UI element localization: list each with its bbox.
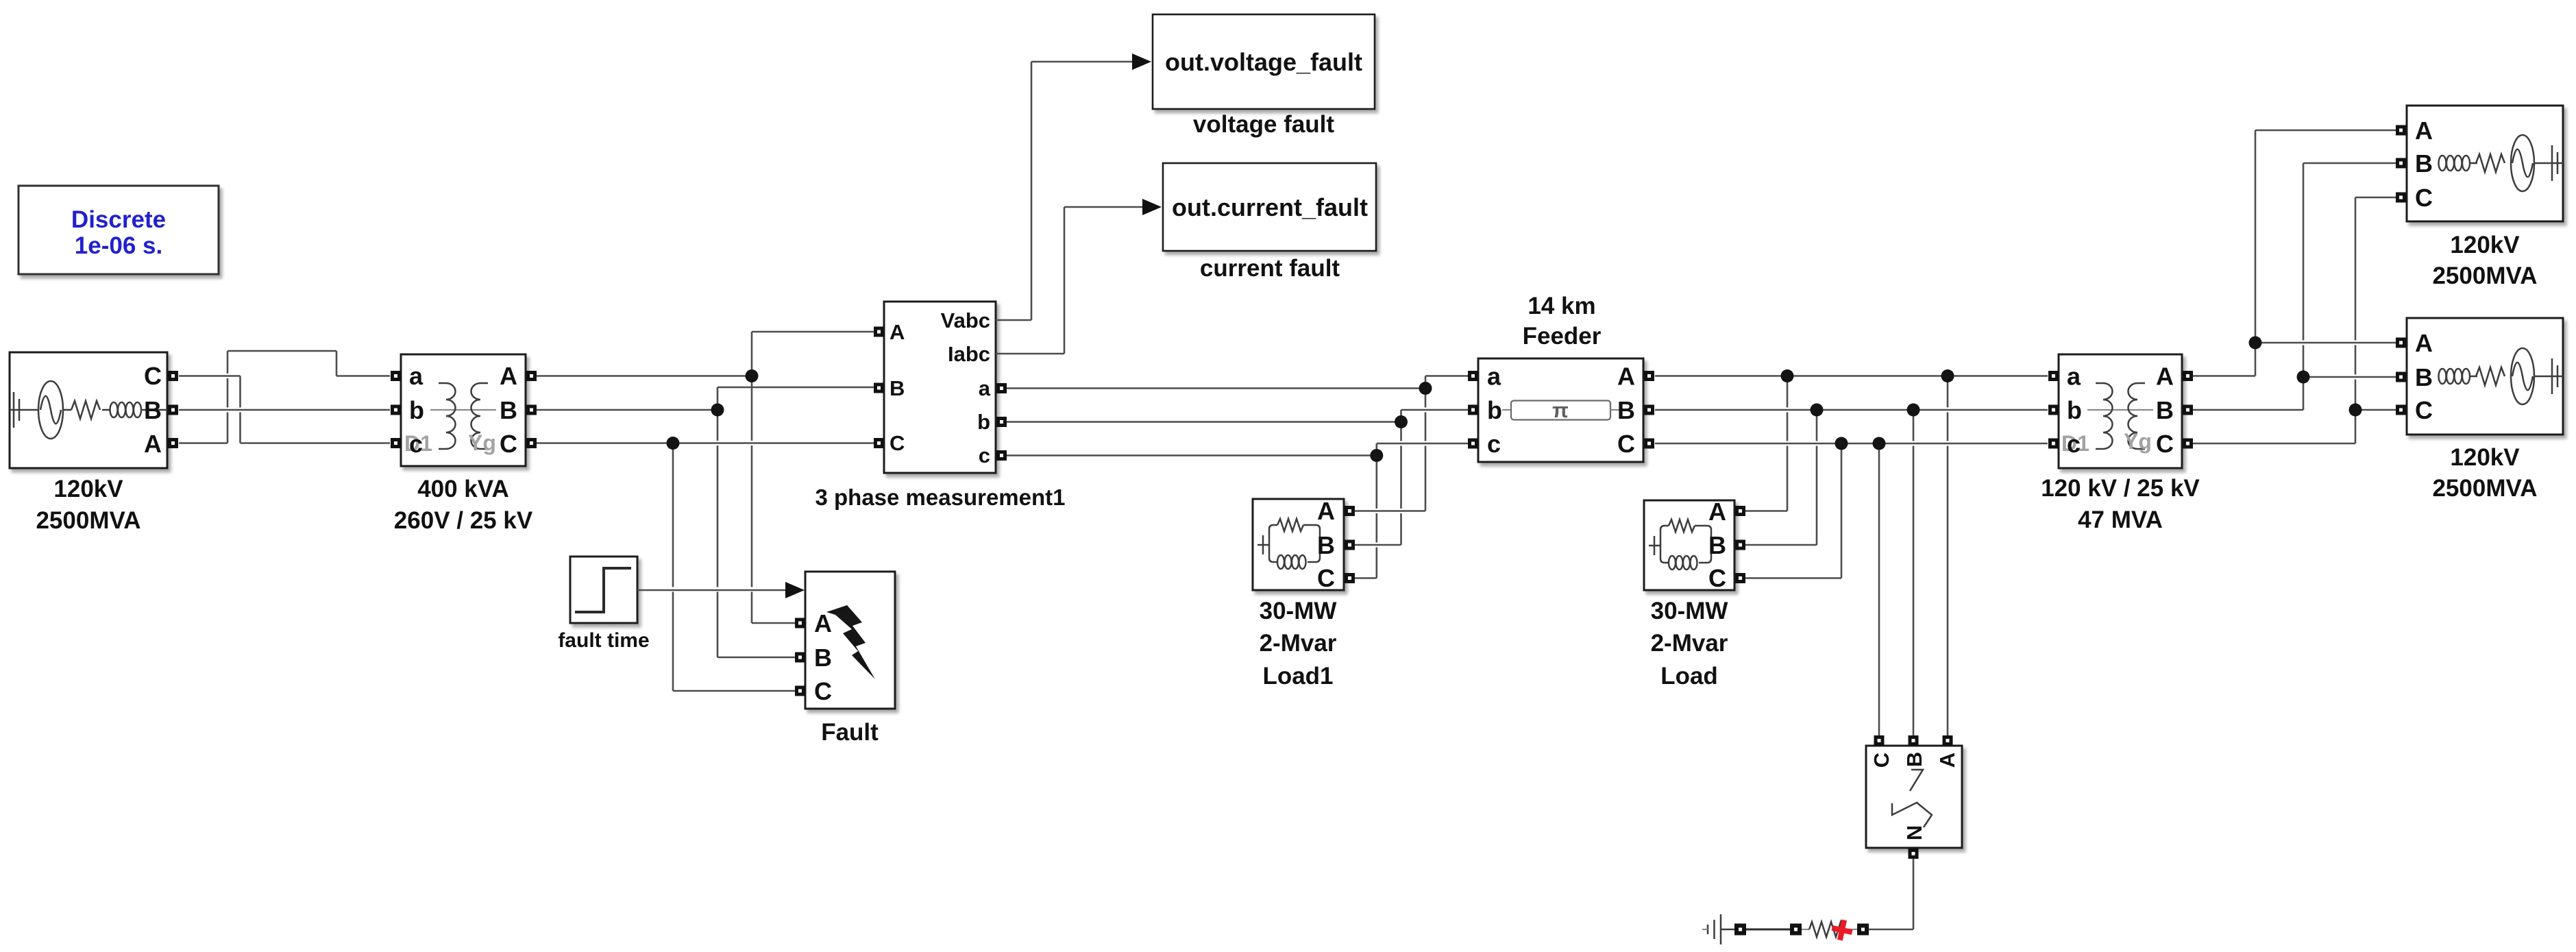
- step block fault time: [570, 557, 637, 623]
- svg-text:C: C: [814, 677, 832, 705]
- bus wire a: measurement a to feeder a and Load1 A: [1007, 376, 1468, 511]
- svg-text:A: A: [500, 362, 517, 390]
- ground chain connector port 3: [1857, 924, 1869, 936]
- svg-text:C: C: [1317, 564, 1335, 592]
- svg-text:π: π: [1552, 398, 1569, 422]
- Load1 RL icon: [1258, 519, 1320, 569]
- feeder port B: [1617, 396, 1654, 424]
- svg-text:A: A: [144, 430, 162, 458]
- svg-text:c: c: [2067, 430, 2081, 458]
- source V2 120kV 2500MVA (top right): [2407, 106, 2563, 221]
- svg-text:a: a: [409, 362, 424, 390]
- svg-text:B: B: [500, 396, 517, 424]
- svg-text:Feeder: Feeder: [1523, 323, 1602, 350]
- feeder block (pi section line): [1478, 358, 1643, 462]
- junction node bus B / Load B: [1811, 404, 1824, 417]
- svg-text:C: C: [2415, 396, 2433, 424]
- red fault cross marker: [1830, 918, 1854, 942]
- svg-text:260V / 25 kV: 260V / 25 kV: [394, 507, 533, 534]
- svg-text:B: B: [2415, 363, 2433, 391]
- svg-text:c: c: [409, 430, 423, 458]
- svg-text:c: c: [979, 443, 990, 467]
- Fault port B: [795, 644, 832, 672]
- svg-text:a: a: [1487, 363, 1501, 391]
- wire N to ground resistor chain: [1869, 859, 1913, 929]
- svg-text:A: A: [890, 320, 905, 344]
- svg-text:Vabc: Vabc: [941, 308, 990, 332]
- svg-text:30-MW: 30-MW: [1260, 598, 1337, 624]
- Load port C: [1708, 564, 1745, 592]
- svg-text:2-Mvar: 2-Mvar: [1260, 630, 1337, 657]
- junction node right phase B: [2297, 371, 2310, 384]
- svg-text:B: B: [1708, 531, 1726, 559]
- svg-text:C: C: [890, 431, 905, 455]
- svg-text:fault time: fault time: [558, 629, 649, 652]
- neutral resistor: [1802, 922, 1857, 937]
- source V1 port B: [144, 396, 178, 424]
- arrowhead into current_fault: [1142, 199, 1162, 215]
- transformer T2 port A: [2156, 363, 2193, 391]
- junction node phase C: [667, 437, 680, 450]
- wire phase A: transformer A to measurement A and Fault A: [537, 332, 874, 623]
- three-phase VI measurement block: [884, 302, 996, 473]
- arrowhead into voltage_fault: [1132, 53, 1151, 70]
- transformer T1 port A: [500, 362, 537, 390]
- svg-text:B: B: [890, 376, 905, 400]
- svg-text:A: A: [2415, 329, 2433, 357]
- source V1 120kV 2500MVA (left three-phase source): [10, 352, 167, 468]
- feeder pi-section icon: [1502, 398, 1621, 422]
- transformer T2 120kV/25kV 47MVA: [2059, 354, 2182, 468]
- source V3 icon: [2439, 348, 2564, 404]
- source V2 icon: [2439, 135, 2564, 191]
- svg-text:A: A: [1317, 497, 1335, 525]
- junction node phase A: [746, 369, 759, 382]
- Fault block (three-phase fault): [805, 572, 895, 709]
- junction node bus c / Load1 C: [1370, 449, 1383, 462]
- svg-text:B: B: [814, 644, 832, 672]
- svg-text:1e-06 s.: 1e-06 s.: [75, 232, 162, 259]
- svg-text:120kV: 120kV: [53, 476, 123, 502]
- measurement port C: [874, 431, 905, 455]
- transformer T2 port B: [2156, 396, 2193, 424]
- junction node bus a / Load1 A: [1419, 382, 1432, 395]
- junction node right phase A: [2249, 337, 2262, 350]
- svg-text:B: B: [2156, 396, 2174, 424]
- Load1 port A: [1317, 497, 1355, 525]
- source V2 port B: [2396, 149, 2433, 178]
- Fault lightning icon: [826, 605, 875, 679]
- junction node bus B / grounding B: [1907, 404, 1920, 417]
- wire source A to transformer a (crossover): [179, 351, 390, 443]
- svg-text:A: A: [1617, 363, 1635, 391]
- bus wire c: measurement c to feeder c and Load1 C: [1007, 443, 1468, 578]
- svg-text:C: C: [1869, 753, 1893, 768]
- arrowhead into Fault trigger: [785, 582, 805, 598]
- ground chain connector port 2: [1790, 924, 1802, 936]
- svg-text:b: b: [977, 410, 990, 434]
- grounding transformer block: [1866, 746, 1962, 848]
- svg-text:A: A: [2156, 363, 2174, 391]
- svg-text:B: B: [2415, 149, 2433, 178]
- transformer T1 winding icon: [430, 383, 496, 449]
- svg-text:B: B: [1617, 396, 1635, 424]
- svg-text:2-Mvar: 2-Mvar: [1651, 630, 1728, 657]
- grounding transformer port B (top, rotated label): [1902, 735, 1926, 767]
- svg-text:47 MVA: 47 MVA: [2078, 506, 2163, 533]
- transformer T1 port a: [391, 362, 424, 390]
- svg-text:Load: Load: [1660, 663, 1718, 689]
- source V3 120kV 2500MVA (bottom right): [2407, 318, 2563, 435]
- transformer T2 port C: [2156, 430, 2193, 458]
- wire T2 B to right sources phase B: [2193, 163, 2396, 410]
- svg-text:A: A: [814, 609, 832, 637]
- svg-text:400 kVA: 400 kVA: [417, 476, 509, 502]
- transformer T2 port b: [2048, 396, 2082, 424]
- svg-text:Yg: Yg: [2124, 429, 2152, 454]
- svg-text:out.voltage_fault: out.voltage_fault: [1165, 48, 1362, 76]
- measurement port B: [874, 376, 905, 400]
- Load RL icon: [1649, 520, 1711, 570]
- ground chain connector port 1: [1734, 924, 1746, 936]
- svg-text:C: C: [144, 362, 162, 390]
- wire source C to transformer c (crossover): [179, 376, 390, 443]
- wire Iabc to goto current_fault: [996, 207, 1143, 354]
- wire phase C: transformer C to measurement C and Fault C: [537, 443, 874, 692]
- svg-text:B: B: [1902, 752, 1926, 767]
- junction node bus C / Load C: [1835, 437, 1848, 450]
- grounding transformer port A (top, rotated label): [1935, 735, 1959, 768]
- wire T2 C to right sources phase C: [2193, 197, 2396, 443]
- wire source B to transformer b: [179, 409, 390, 411]
- Fault port C: [795, 677, 832, 705]
- svg-text:out.current_fault: out.current_fault: [1172, 193, 1368, 221]
- transformer T2 port c: [2048, 430, 2081, 458]
- svg-text:A: A: [1935, 753, 1959, 768]
- source V1 icon: series RL + AC source: [10, 381, 167, 439]
- transformer T1 port c: [391, 430, 423, 458]
- source V3 port A: [2396, 329, 2433, 357]
- svg-text:current fault: current fault: [1200, 255, 1340, 282]
- Load1 block 30-MW 2-Mvar: [1253, 499, 1344, 590]
- junction node bus A / grounding A: [1941, 369, 1954, 382]
- powergui block "Discrete 1e-06 s.": [19, 186, 219, 274]
- svg-text:120kV: 120kV: [2450, 232, 2520, 258]
- svg-text:C: C: [2415, 184, 2433, 212]
- wire step output to Fault trigger: [637, 589, 788, 591]
- bus wire b: measurement b to feeder b and Load1 B: [1007, 410, 1468, 545]
- svg-text:C: C: [500, 430, 517, 458]
- junction node right phase C: [2349, 404, 2362, 417]
- transformer T1 port b: [391, 396, 424, 424]
- svg-text:b: b: [409, 396, 424, 424]
- svg-text:30-MW: 30-MW: [1651, 598, 1728, 624]
- Fault port A: [795, 609, 832, 637]
- svg-text:3 phase measurement1: 3 phase measurement1: [815, 485, 1065, 510]
- transformer T1 port C: [500, 430, 537, 458]
- measurement port a: [979, 376, 1007, 400]
- measurement port A: [874, 320, 905, 344]
- svg-text:C: C: [1708, 564, 1726, 592]
- source V1 port C: [144, 362, 178, 390]
- feeder port a: [1468, 363, 1501, 391]
- svg-text:B: B: [1317, 531, 1335, 559]
- svg-text:2500MVA: 2500MVA: [36, 507, 140, 534]
- junction node bus A / Load A: [1781, 369, 1794, 382]
- transformer T1 400 kVA 260V/25kV: [401, 354, 526, 466]
- goto block out.current_fault: [1163, 163, 1376, 251]
- Load port A: [1708, 498, 1745, 526]
- svg-text:a: a: [979, 376, 991, 400]
- svg-text:C: C: [2156, 430, 2174, 458]
- source V2 port A: [2396, 117, 2433, 145]
- svg-text:voltage fault: voltage fault: [1193, 111, 1334, 138]
- svg-text:B: B: [144, 396, 162, 424]
- svg-text:b: b: [1487, 396, 1502, 424]
- svg-text:14 km: 14 km: [1528, 293, 1595, 319]
- wire Vabc to goto voltage_fault: [996, 62, 1133, 320]
- grounding transformer port C (top, rotated label): [1869, 735, 1893, 768]
- bus wire B: feeder B to transformer b with taps: [1655, 410, 2048, 735]
- Load port B: [1708, 531, 1745, 559]
- svg-text:C: C: [1617, 430, 1635, 458]
- transformer T2 port a: [2048, 363, 2081, 391]
- Load1 port B: [1317, 531, 1355, 559]
- grounding transformer zigzag icon: [1892, 770, 1932, 827]
- junction node bus b / Load1 B: [1395, 415, 1408, 428]
- wire port1 to port2: [1746, 929, 1790, 931]
- feeder port C: [1617, 430, 1654, 458]
- svg-text:Load1: Load1: [1262, 663, 1333, 689]
- junction node phase B: [711, 404, 724, 417]
- svg-text:Discrete: Discrete: [71, 206, 166, 233]
- bus wire A: feeder A to transformer a, Load C taps and grounding taps: [1655, 376, 2048, 736]
- goto block out.voltage_fault: [1153, 14, 1375, 109]
- wire T2 A to right sources phase A: [2193, 130, 2396, 376]
- svg-text:b: b: [2067, 396, 2082, 424]
- measurement port c: [979, 443, 1007, 467]
- svg-text:120kV: 120kV: [2450, 444, 2520, 471]
- svg-text:Iabc: Iabc: [948, 342, 990, 366]
- svg-text:2500MVA: 2500MVA: [2432, 475, 2537, 502]
- step icon: [575, 568, 631, 612]
- source V1 port A: [144, 430, 178, 458]
- wire phase B: transformer B to measurement B and Fault B: [537, 387, 874, 657]
- svg-text:Fault: Fault: [821, 719, 879, 746]
- svg-text:N: N: [1902, 825, 1926, 840]
- junction node bus C / grounding C: [1873, 437, 1886, 450]
- source V2 port C: [2396, 184, 2433, 212]
- svg-text:Yg: Yg: [468, 430, 496, 455]
- transformer T2 winding icon: [2087, 383, 2153, 449]
- ground symbol: [1702, 914, 1734, 944]
- measurement port b: [977, 410, 1007, 434]
- Load1 port C: [1317, 564, 1355, 592]
- svg-text:2500MVA: 2500MVA: [2432, 263, 2537, 289]
- svg-text:a: a: [2067, 363, 2081, 391]
- grounding transformer port N (bottom, rotated label): [1902, 825, 1926, 859]
- source V3 port C: [2396, 396, 2433, 424]
- svg-text:A: A: [1708, 498, 1726, 526]
- svg-text:c: c: [1487, 430, 1501, 458]
- transformer T1 port B: [500, 396, 537, 424]
- Load block 30-MW 2-Mvar: [1644, 500, 1734, 590]
- feeder port c: [1468, 430, 1501, 458]
- svg-text:A: A: [2415, 117, 2433, 145]
- feeder port b: [1468, 396, 1502, 424]
- bus wire C: feeder C to transformer c with taps: [1655, 443, 2048, 735]
- svg-text:120 kV / 25 kV: 120 kV / 25 kV: [2041, 475, 2200, 502]
- feeder port A: [1617, 363, 1654, 391]
- source V3 port B: [2396, 363, 2433, 391]
